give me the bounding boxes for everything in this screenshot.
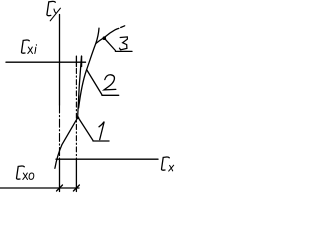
digit 1 (99, 122, 104, 140)
label Cy : letter C (47, 1, 55, 15)
dimension slash at origin on bottom line (57, 185, 63, 191)
leader line for label 2 (87, 70, 102, 95)
curve 2 (middle polar) (79, 28, 99, 108)
label Cx0 : subscript x (23, 173, 28, 180)
curve 3 dashed tail tip (121, 26, 125, 28)
tick at x=81.8 through Cxi line (81, 56, 83, 66)
label Cx0 : subscript 0 (29, 173, 34, 179)
label Cy : subscript y (50, 8, 60, 21)
digit 2 (104, 75, 116, 90)
dimension slash at x=76.5 on bottom line (73, 185, 79, 191)
label Cx0 : letter C (17, 166, 25, 179)
axis Cy (vertical, solid upper part) (59, 15, 61, 106)
junction point on polar (zero-lift) (76, 116, 79, 119)
label Cxi : letter C (22, 40, 30, 53)
point marker (dot, tangency) on curve 3 (103, 36, 107, 40)
label Cxi : subscript x (28, 47, 33, 54)
curve 1 (polar, steep inner) (78, 56, 82, 118)
Cxi dimension line (6, 61, 86, 63)
Cx0 dimension line (bottom) (0, 187, 79, 189)
underline of label 2 (102, 94, 119, 96)
dropline at x=76.5 dash-dot (75, 69, 77, 160)
digit 3 (120, 37, 128, 50)
curve 3 (upper polar arc through tangency point) (96, 28, 119, 43)
leader line for label 1 (79, 118, 94, 141)
tangent line from origin to polar (55, 118, 78, 169)
label Cxi : subscript i (35, 45, 37, 54)
dropline at x=76.5 below axis (75, 159, 77, 192)
underline of label 1 (93, 140, 109, 142)
label Cx (axis) : letter C (162, 157, 170, 170)
axis Cx (horizontal) (56, 158, 158, 160)
axis Cy lower dash-dot extension (59, 105, 61, 159)
axis Cy extension below Cx axis (59, 159, 61, 192)
dropline at x=76.5 tick through Cxi line (75, 56, 77, 66)
label Cx (axis) : subscript x (169, 165, 174, 171)
leader line for label 3 (105, 39, 115, 50)
underline of label 3 (115, 50, 132, 52)
